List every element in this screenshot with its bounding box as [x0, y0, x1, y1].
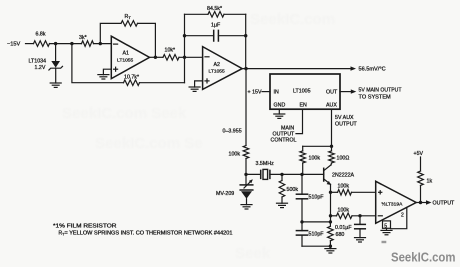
ground (comparator pin 5)	[381, 230, 392, 234]
svg-text:5V MAIN OUTPUT: 5V MAIN OUTPUT	[359, 87, 403, 93]
wire comparator output	[416, 202, 420, 204]
node 510pF/100k tap	[300, 173, 303, 176]
resistor 84.5k*	[207, 6, 224, 17]
resistor 680	[328, 222, 345, 249]
node 5V AUX OUTPUT label	[335, 115, 358, 127]
resistor 100 ohm	[329, 146, 350, 165]
node +15V supply to IN	[248, 90, 271, 96]
svg-text:TO SYSTEM: TO SYSTEM	[359, 94, 392, 100]
svg-text:AUX: AUX	[326, 102, 337, 108]
wire OUT pin / arrow 5V main output	[340, 87, 402, 100]
svg-text:½LT319A: ½LT319A	[382, 201, 404, 208]
wire GND pin	[278, 109, 280, 114]
arrow 56.5mV/C output	[351, 66, 386, 72]
op-amp A2 LT1055	[203, 47, 243, 90]
wire A2 feedback right vertical	[245, 14, 247, 68]
ground (LT1034)	[50, 83, 61, 87]
wire pin 2 to ground	[391, 208, 407, 229]
resistor 500k	[279, 174, 298, 203]
ground (bottom rail)	[325, 249, 336, 253]
wire to A2 inverting input	[179, 56, 203, 58]
node 680 top	[329, 220, 332, 223]
wire AUX pin	[331, 109, 333, 146]
wire A1 + input to ground	[103, 69, 111, 74]
svg-text:0.01µF: 0.01µF	[335, 225, 352, 231]
svg-text:−15V: −15V	[7, 42, 20, 48]
svg-text:2N2222A: 2N2222A	[332, 172, 355, 178]
transistor Q1 2N2222A	[324, 165, 355, 185]
op-amp A1 LT1055	[111, 36, 149, 78]
wire caps midpoint to emitter column	[302, 221, 330, 223]
svg-text:1µF: 1µF	[211, 23, 221, 29]
capacitor 510pF lower	[296, 222, 324, 246]
svg-text:SeekIC.com Se: SeekIC.com Se	[95, 135, 203, 152]
svg-text:GND: GND	[274, 102, 286, 108]
resistor 100k (to - comparator)	[331, 207, 376, 218]
svg-text:100k: 100k	[309, 155, 321, 161]
svg-text:SeekIC.com: SeekIC.com	[391, 251, 456, 265]
svg-text:100k: 100k	[229, 152, 241, 158]
svg-text:+5V: +5V	[414, 151, 424, 157]
wire main rail	[50, 43, 82, 45]
capacitor 1uF	[211, 23, 221, 42]
zener LT1034 1.2V	[29, 44, 63, 83]
svg-text:100k: 100k	[338, 207, 350, 213]
svg-text:1k: 1k	[427, 179, 433, 185]
node RT tap / A1 minus input	[99, 42, 102, 45]
svg-text:56.5mV/°C: 56.5mV/°C	[359, 67, 386, 73]
wire to varactor node	[245, 159, 247, 175]
wire 1uF rail	[185, 35, 246, 37]
node emitter / 100k upper	[329, 191, 332, 194]
node feedback tap	[70, 42, 73, 45]
svg-text:MV-209: MV-209	[216, 191, 234, 197]
wire A2 + input to ground	[195, 81, 203, 87]
svg-text:SeekIC.com Seek: SeekIC.com Seek	[62, 105, 187, 122]
svg-text:100k: 100k	[338, 184, 350, 190]
svg-text:CONTROL: CONTROL	[271, 138, 297, 144]
wire emitter vertical	[330, 184, 332, 222]
resistor 6.8k	[34, 32, 50, 47]
pin 5 box to ground	[383, 221, 391, 231]
ground (A2 + input)	[189, 87, 200, 91]
wire A2 output line	[242, 68, 350, 70]
svg-text:10k*: 10k*	[165, 48, 176, 54]
node bottom rail	[329, 245, 332, 248]
svg-text:0–3.955: 0–3.955	[223, 129, 242, 135]
resistor 100k (AUX divider)	[300, 146, 320, 174]
ground (LT1005 GND)	[274, 114, 285, 118]
wire to A1 inverting input	[94, 43, 112, 45]
svg-text:+ 15V: + 15V	[248, 90, 262, 96]
resistor 10k*	[163, 48, 179, 61]
node 0.01uF tap	[358, 214, 361, 217]
node MAIN OUTPUT CONTROL label	[271, 126, 297, 144]
node A2 output	[244, 67, 247, 70]
svg-text:3.5MHz: 3.5MHz	[256, 161, 275, 167]
svg-text:510pF: 510pF	[309, 195, 325, 201]
resistor 100k (varactor feed)	[229, 146, 249, 159]
resistor 1k	[418, 171, 433, 203]
node -15V input label	[7, 42, 34, 48]
svg-text:3k*: 3k*	[79, 35, 87, 41]
note film resistor	[53, 224, 233, 237]
ground (MV-209)	[241, 205, 252, 209]
crystal 3.5MHz	[246, 161, 324, 179]
svg-text:EN: EN	[300, 102, 308, 108]
node AUX junction	[330, 145, 333, 148]
comparator 1/2 LT319A	[376, 181, 417, 223]
node output junction	[419, 201, 422, 204]
wire A1 output	[150, 56, 164, 58]
watermark SeekIC.com	[382, 241, 456, 265]
svg-text:500k: 500k	[287, 187, 299, 193]
capacitor 0.01uF	[335, 216, 365, 238]
wire AUX horizontal	[303, 145, 332, 147]
node 1uF rail left	[183, 34, 186, 37]
node 500k tap	[280, 173, 283, 176]
arrow OUTPUT	[421, 200, 456, 206]
ground (A1 + input)	[98, 75, 109, 79]
regulator LT1005 box	[270, 74, 340, 109]
node mid caps left	[300, 220, 303, 223]
svg-text:10.7k*: 10.7k*	[124, 74, 139, 80]
svg-text:100Ω: 100Ω	[337, 155, 350, 161]
svg-text:Seek: Seek	[235, 245, 271, 262]
svg-text:RT: RT	[125, 14, 132, 20]
wire 10.7k feedback bottom rail	[72, 44, 185, 83]
svg-text:84.5k*: 84.5k*	[207, 6, 222, 12]
svg-text:OUTPUT: OUTPUT	[335, 121, 358, 127]
node 100k lower tap	[329, 214, 332, 217]
resistor 10.7k*	[124, 74, 140, 85]
node varactor/crystal junction	[244, 173, 247, 176]
svg-text:= YELLOW SPRINGS INST. CO THER: = YELLOW SPRINGS INST. CO THERMISTOR NET…	[65, 230, 233, 236]
node 0-3.955 label	[223, 129, 242, 135]
svg-text:680: 680	[336, 232, 345, 238]
resistor 3k*	[79, 35, 94, 46]
node +5V supply	[414, 151, 424, 171]
wire A2 output down vertical	[245, 69, 247, 146]
varactor MV-209	[216, 174, 253, 204]
wire A2 feedback left vertical	[184, 14, 186, 82]
node diode tap	[54, 42, 57, 45]
capacitor 510pF upper	[296, 174, 324, 222]
svg-text:SeekIC.com: SeekIC.com	[250, 11, 335, 28]
wire 84.5k top rail	[185, 13, 246, 15]
node A2 summing junction	[183, 56, 186, 59]
wire EN pin to main output control	[296, 109, 303, 133]
svg-text:LT1055: LT1055	[117, 58, 134, 64]
svg-text:2: 2	[401, 212, 404, 218]
faint ghost watermark	[62, 11, 335, 262]
svg-text:A2: A2	[214, 62, 221, 68]
svg-text:OUTPUT: OUTPUT	[433, 201, 456, 207]
svg-text:1.2V: 1.2V	[35, 65, 46, 71]
node 1uF rail right	[244, 34, 247, 37]
ground (500k)	[277, 203, 288, 207]
svg-text:A1: A1	[123, 51, 130, 57]
resistor RT (thermistor network)	[121, 14, 138, 26]
node A1 output / RT junction	[154, 56, 157, 59]
svg-text:5V AUX: 5V AUX	[335, 115, 354, 121]
svg-text:IN: IN	[274, 90, 279, 96]
svg-text:LT1034: LT1034	[29, 59, 47, 65]
svg-text:510pF: 510pF	[309, 231, 325, 237]
ground (0.01uF)	[355, 238, 366, 242]
svg-text:*1% FILM RESISTOR: *1% FILM RESISTOR	[53, 224, 117, 230]
svg-text:OUT: OUT	[326, 90, 338, 96]
svg-text:LT1005: LT1005	[293, 89, 311, 95]
wire bottom rail	[302, 245, 330, 247]
resistor 100k (to + comparator)	[331, 184, 376, 195]
wire RT feedback loop	[100, 23, 155, 57]
svg-text:LT1055: LT1055	[209, 69, 226, 75]
svg-text:6.8k: 6.8k	[36, 32, 46, 38]
